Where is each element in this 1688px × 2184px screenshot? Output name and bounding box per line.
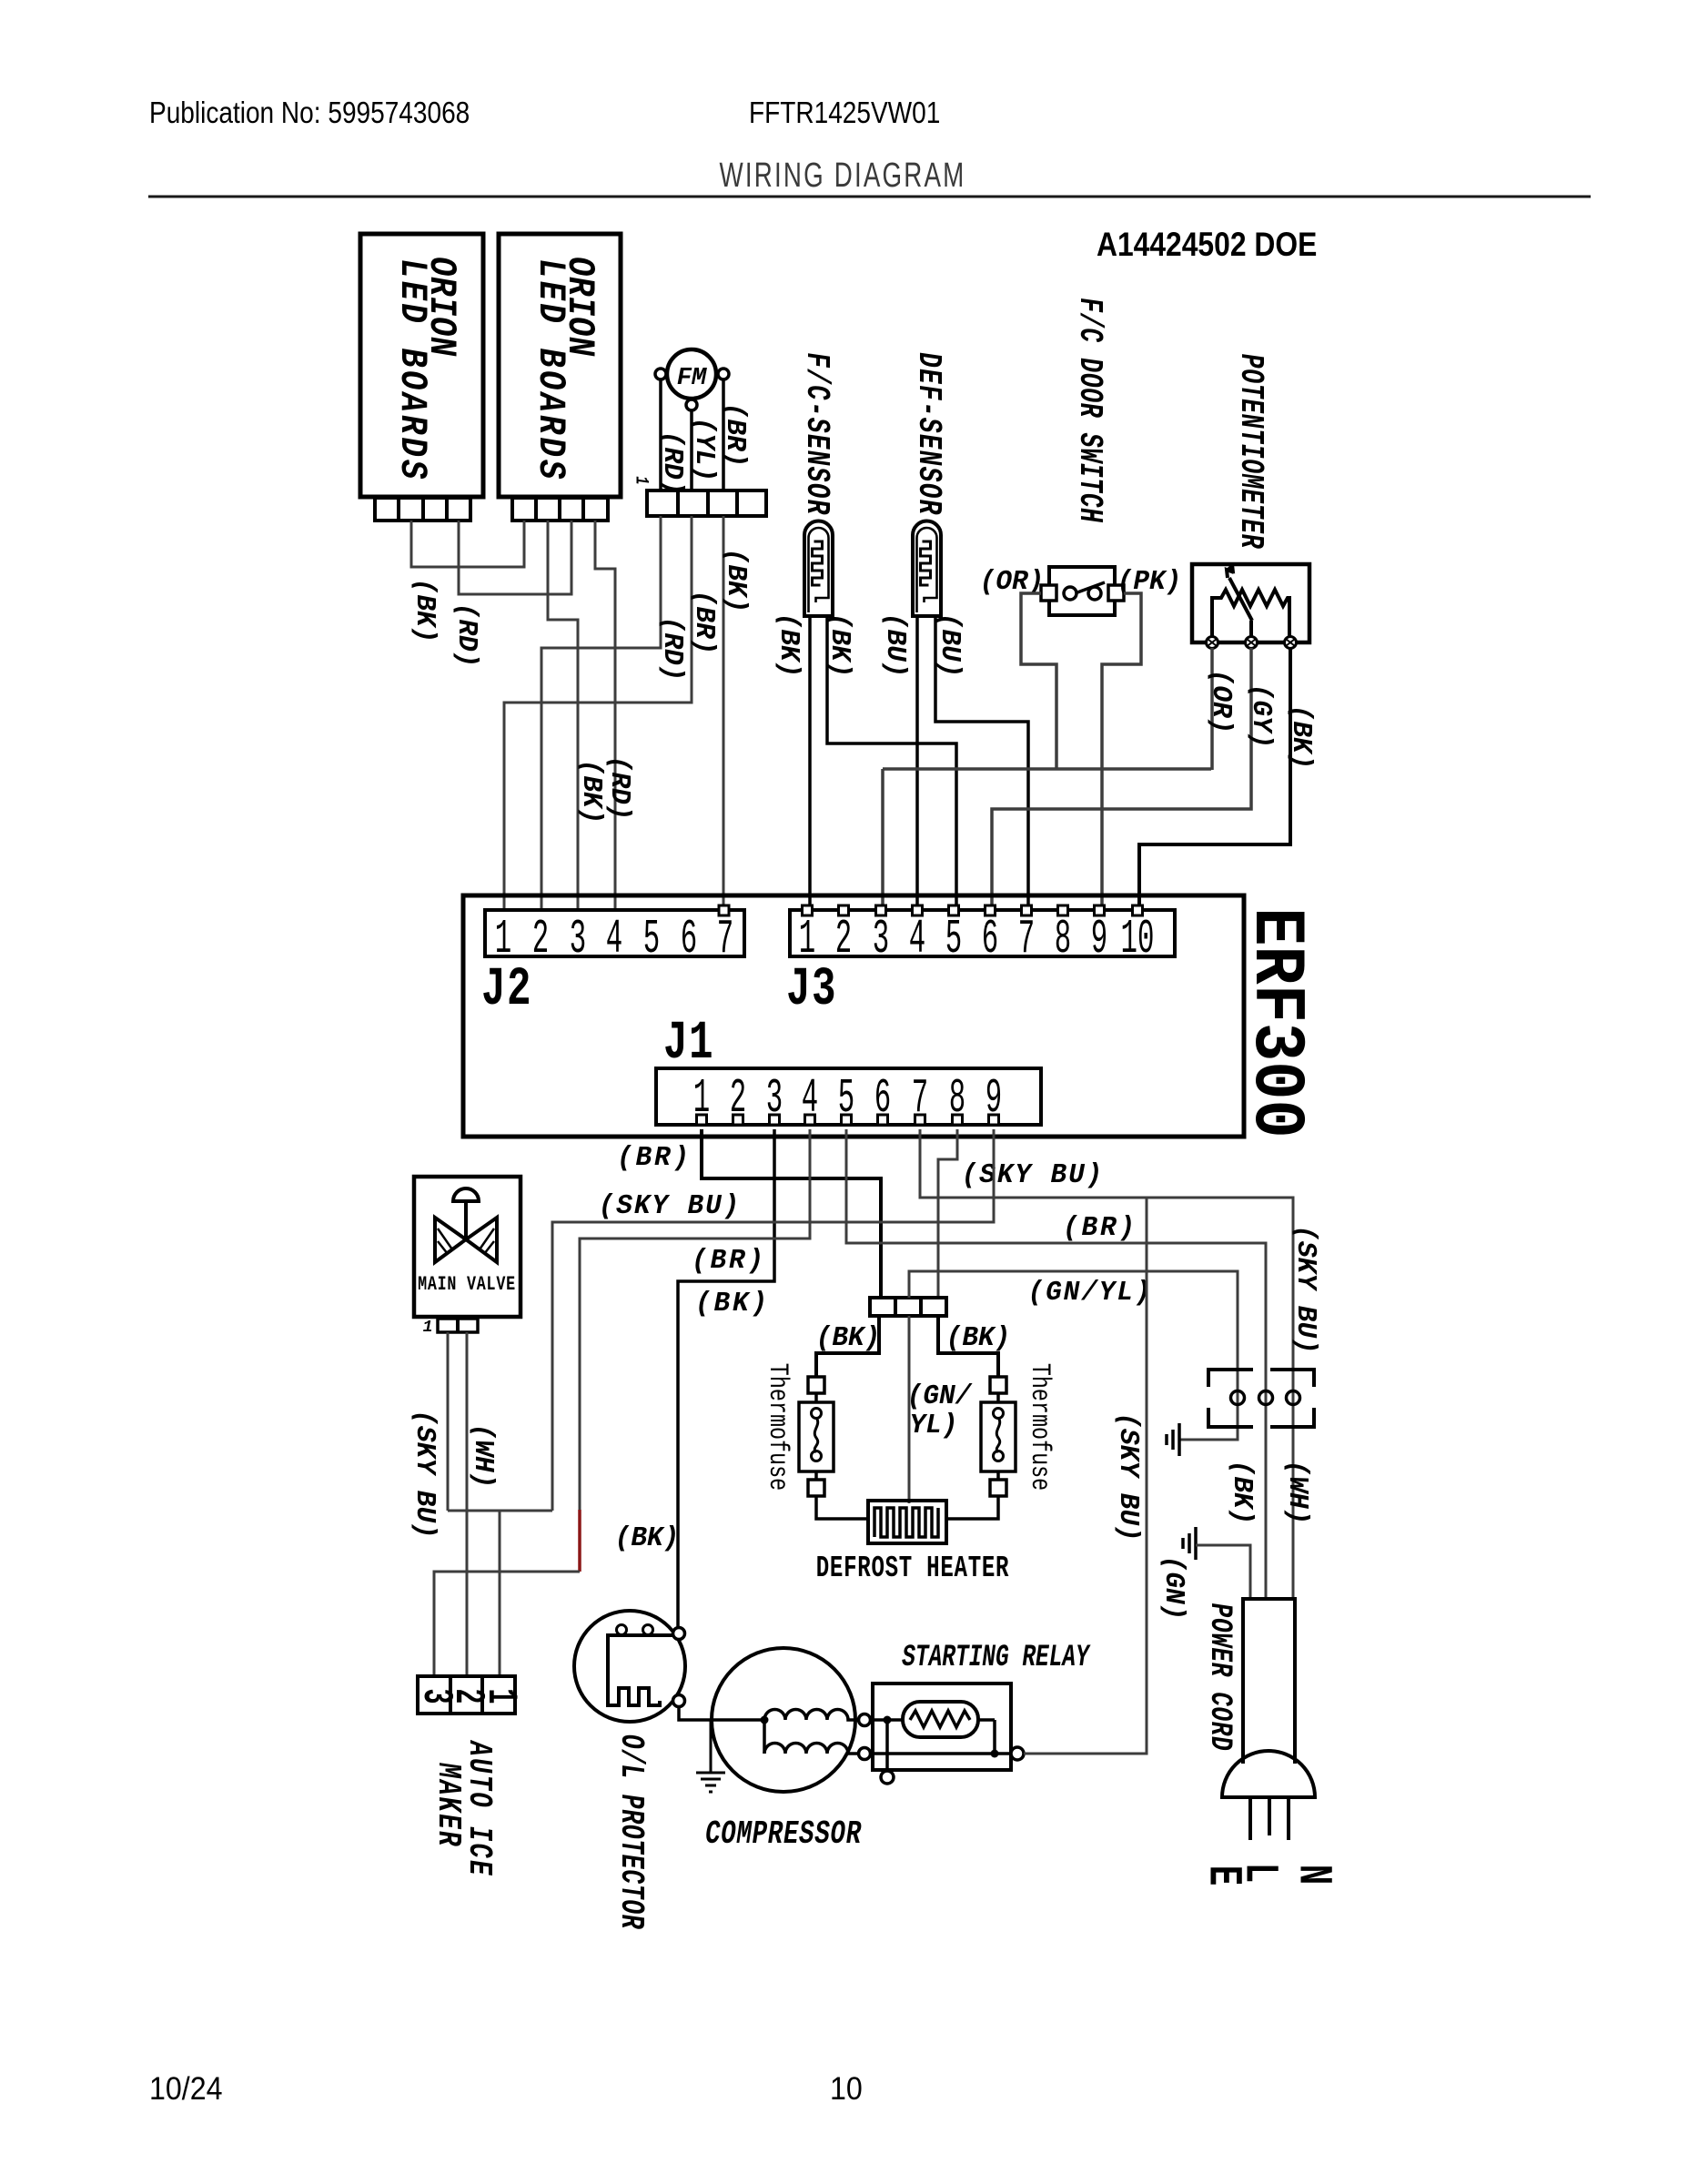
- door switch lever: [1077, 582, 1105, 592]
- board2 connector (4 pins): [512, 498, 608, 521]
- svg-text:4: 4: [606, 913, 622, 967]
- potentiometer box: [1192, 564, 1309, 642]
- svg-text:(YL): (YL): [688, 418, 720, 482]
- svg-text:1: 1: [423, 1319, 433, 1337]
- svg-text:1: 1: [477, 1688, 524, 1704]
- wire F/C right to J3-5 (BK): [827, 616, 956, 905]
- door switch box: [1049, 567, 1115, 615]
- wire J1-1 (BR) to heater connector: [702, 1129, 881, 1298]
- wire J1-4 to ice maker 3: [434, 1572, 580, 1676]
- label (GN/ YL) heater: [907, 1380, 973, 1441]
- label STARTING RELAY: [902, 1639, 1090, 1674]
- svg-text:9: 9: [1091, 913, 1107, 967]
- title: Publication No: [149, 96, 470, 130]
- svg-text:(BK): (BK): [575, 760, 607, 824]
- orion led board 1 label LED BOARDS: [390, 258, 434, 481]
- board1 connector (4 pins): [375, 498, 470, 521]
- J1 pin squares: [697, 1115, 999, 1125]
- svg-text:J3: J3: [786, 959, 837, 1020]
- compressor terminal bottom: [859, 1748, 871, 1760]
- svg-text:MAIN VALVE: MAIN VALVE: [418, 1273, 516, 1296]
- svg-text:(BU): (BU): [934, 613, 965, 678]
- label (BK) tf right: [946, 1322, 1011, 1354]
- label (BK) fc2: [824, 613, 855, 678]
- svg-text:MAKER: MAKER: [430, 1762, 468, 1847]
- FM terminal bottom: [686, 399, 697, 410]
- wire left BK to thermofuse: [816, 1316, 879, 1378]
- wire node to ice maker 1: [499, 1511, 501, 1676]
- label (SKY BU) relay riser: [1112, 1412, 1144, 1541]
- orion led board 1 box: [360, 234, 483, 497]
- label (BK) pot: [1285, 705, 1317, 770]
- svg-text:1: 1: [631, 476, 651, 484]
- FM connector (4 pins): [647, 490, 766, 516]
- label (BK) OL wire: [615, 1522, 680, 1554]
- plug prong L: [1268, 1797, 1271, 1835]
- svg-text:(OR): (OR): [1205, 670, 1237, 734]
- FM lead YL: [690, 410, 693, 490]
- wire J1-4 (BR) upper: [580, 1129, 810, 1510]
- plug prong E: [1248, 1797, 1252, 1840]
- svg-text:6: 6: [681, 913, 697, 967]
- starting relay box: [873, 1683, 1011, 1770]
- label (SKY BU) right: [1289, 1225, 1321, 1353]
- label Thermofuse right: [1024, 1363, 1054, 1491]
- DEF-SENSOR symbol: [913, 521, 941, 617]
- F/C-SENSOR symbol: [804, 521, 833, 617]
- label (OR) pot: [1205, 670, 1237, 734]
- svg-text:O/L PROTECTOR: O/L PROTECTOR: [612, 1734, 649, 1930]
- wire board1-pin4 to board2-pin3 (RD): [459, 521, 571, 594]
- J1 connector box: [656, 1068, 1041, 1125]
- svg-text:(WH): (WH): [467, 1424, 499, 1489]
- relay pill: [903, 1702, 978, 1737]
- svg-text:WIRING DIAGRAM: WIRING DIAGRAM: [720, 157, 966, 195]
- ground symbol plug: [1167, 1423, 1179, 1456]
- svg-text:(BR): (BR): [719, 403, 751, 468]
- power cord body: [1243, 1599, 1295, 1764]
- wire J1-3 (BK) to O/L protector: [678, 1129, 774, 1629]
- wire OR bus to J3-3: [883, 769, 1211, 905]
- svg-text:(BK): (BK): [1285, 705, 1317, 770]
- wire J1-9 (SKY BU) to valve node: [552, 1129, 994, 1511]
- pot terminal 3: [1285, 637, 1297, 649]
- svg-text:YL): YL): [910, 1410, 958, 1441]
- svg-text:(SKY BU): (SKY BU): [1112, 1412, 1144, 1541]
- svg-text:10: 10: [1121, 913, 1155, 967]
- O/L terminal top: [673, 1628, 685, 1640]
- wire board1-pin2 to board2-pin1 (BK): [411, 521, 524, 567]
- svg-text:POTENTIOMETER: POTENTIOMETER: [1232, 354, 1269, 550]
- label (YL) FM: [688, 418, 720, 482]
- label (WH) valve: [467, 1424, 499, 1489]
- fan motor FM label: [677, 365, 707, 392]
- wire J1-4 red segment: [578, 1510, 581, 1572]
- svg-text:J1: J1: [663, 1013, 714, 1074]
- FM lead RD: [659, 379, 662, 490]
- wire pot-1 (OR) down: [1210, 648, 1214, 770]
- wire GN to cord: [1196, 1545, 1250, 1599]
- svg-text:(BK): (BK): [695, 1288, 770, 1319]
- svg-text:6: 6: [982, 913, 998, 967]
- main valve dome: [453, 1188, 479, 1201]
- wire FM-1 to J2-2 (RD): [541, 516, 661, 910]
- ice maker pin 2: [444, 1688, 491, 1704]
- orion led board 2 label LED BOARDS: [529, 258, 572, 481]
- svg-text:8: 8: [1055, 913, 1071, 967]
- label (PK) switch: [1117, 566, 1182, 598]
- svg-text:10/24: 10/24: [149, 2072, 223, 2108]
- potentiometer wiper arrow: [1227, 564, 1252, 637]
- svg-text:(SKY BU): (SKY BU): [962, 1159, 1105, 1191]
- compressor start winding: [764, 1720, 859, 1754]
- label (BR) J1-1: [617, 1142, 692, 1174]
- svg-text:(GN/: (GN/: [907, 1380, 973, 1412]
- main valve label: [418, 1273, 516, 1296]
- svg-text:N: N: [1286, 1865, 1340, 1885]
- svg-text:(BR): (BR): [617, 1142, 692, 1174]
- svg-text:(WH): (WH): [1281, 1461, 1313, 1525]
- main valve box: [414, 1177, 521, 1317]
- label POTENTIOMETER: [1232, 354, 1269, 550]
- main valve bowtie right: [466, 1218, 497, 1262]
- label F/C-SENSOR: [798, 352, 836, 515]
- wire J1-8 to heater connector right: [938, 1129, 957, 1298]
- compressor circle: [712, 1648, 855, 1792]
- svg-text:(BK): (BK): [615, 1522, 680, 1554]
- wire thermofuse left to heater: [816, 1496, 868, 1519]
- svg-text:(BU): (BU): [879, 613, 911, 678]
- svg-text:Publication No: 5995743068: Publication No: 5995743068: [149, 96, 470, 130]
- label (GN): [1157, 1556, 1189, 1621]
- svg-text:(GY): (GY): [1245, 684, 1277, 749]
- svg-text:10: 10: [830, 2072, 863, 2108]
- label AUTO ICE: [460, 1740, 499, 1877]
- wire GN/YL up to ground path: [909, 1271, 1238, 1440]
- wire relay to SKY BU riser: [1024, 1198, 1147, 1754]
- label J2: [481, 959, 532, 1020]
- J3 connector box: [790, 910, 1175, 956]
- thermofuse right symbol: [981, 1377, 1016, 1496]
- O/L protector element: [608, 1625, 673, 1706]
- svg-text:(BK): (BK): [720, 549, 752, 613]
- label (SKY BU) J1-7: [962, 1159, 1105, 1191]
- label (RD) FM: [656, 431, 688, 496]
- wire O/L to compressor: [679, 1707, 763, 1720]
- label (BR) J1-4: [692, 1245, 766, 1277]
- wire thermofuse right to heater: [946, 1496, 998, 1519]
- ice maker pin 3: [412, 1688, 460, 1704]
- label (GN/YL): [1028, 1277, 1153, 1309]
- thermofuse left symbol: [799, 1377, 834, 1496]
- label O/L PROTECTOR: [612, 1734, 649, 1930]
- compressor terminal top: [859, 1714, 871, 1726]
- main valve bowtie left: [435, 1218, 466, 1262]
- label J1: [663, 1013, 714, 1074]
- FM terminal left: [655, 369, 666, 379]
- label POWER CORD: [1202, 1603, 1237, 1752]
- svg-text:DEFROST HEATER: DEFROST HEATER: [816, 1552, 1010, 1586]
- svg-text:STARTING RELAY: STARTING RELAY: [902, 1639, 1090, 1674]
- label (BK) fc1: [773, 613, 804, 678]
- wire FM-2 to J2-1 (BR): [504, 516, 692, 910]
- plug contact 2: [1259, 1391, 1273, 1405]
- plug contact 1: [1231, 1391, 1245, 1405]
- label (BK) J2-3 wire: [575, 760, 607, 824]
- svg-text:7: 7: [1018, 913, 1035, 967]
- svg-text:L: L: [1232, 1863, 1287, 1883]
- svg-text:(BR): (BR): [692, 1245, 766, 1277]
- wire switch right to J3-9 (PK): [1102, 593, 1141, 905]
- svg-text:(RD): (RD): [603, 756, 635, 821]
- label (BU) def1: [879, 613, 911, 678]
- FM terminal right: [718, 369, 729, 379]
- label (SKY BU) J1-9: [599, 1190, 742, 1222]
- svg-text:5: 5: [643, 913, 660, 967]
- label (BR) FM: [719, 403, 751, 468]
- footer date 10/24: [149, 2072, 223, 2108]
- label (RD) J2-4 wire: [603, 756, 635, 821]
- svg-text:F/C DOOR SWITCH: F/C DOOR SWITCH: [1071, 298, 1107, 523]
- wire valve SKY BU: [447, 1332, 450, 1511]
- label (BK) J1-3: [695, 1288, 770, 1319]
- svg-text:A14424502 DOE: A14424502 DOE: [1097, 227, 1317, 264]
- FM connector pin1 mark: [631, 476, 651, 484]
- O/L terminal bottom: [673, 1695, 685, 1707]
- svg-text:Thermofuse: Thermofuse: [762, 1363, 792, 1491]
- svg-text:(RD): (RD): [656, 617, 688, 682]
- relay output terminal: [1011, 1747, 1024, 1760]
- ground symbol GN: [1183, 1527, 1196, 1560]
- label (GY) pot: [1245, 684, 1277, 749]
- compressor ground symbol: [696, 1773, 725, 1792]
- svg-text:2: 2: [532, 913, 549, 967]
- main valve pin1 mark: [423, 1319, 433, 1337]
- door switch terminal left: [1041, 585, 1056, 601]
- svg-text:(RD): (RD): [656, 431, 688, 496]
- svg-text:(BK): (BK): [824, 613, 855, 678]
- wire DEF left to J3-4 (BU): [915, 616, 919, 905]
- svg-text:(GN/YL): (GN/YL): [1028, 1277, 1153, 1309]
- J2 pin numbers: [495, 913, 733, 967]
- svg-text:(SKY BU): (SKY BU): [409, 1410, 440, 1538]
- wire GN/YL down to heater: [908, 1316, 911, 1503]
- main valve connector: [438, 1319, 478, 1332]
- svg-text:(BR): (BR): [1063, 1212, 1137, 1244]
- plug prong N: [1287, 1797, 1290, 1840]
- label (BK) daisy wire: [409, 579, 440, 643]
- label DEF-SENSOR: [910, 352, 948, 515]
- wire J1-5 (BR) to plug middle: [846, 1129, 1266, 1599]
- label (BU) def2: [934, 613, 965, 678]
- footer page 10: [830, 2072, 863, 2108]
- label L: [1232, 1863, 1287, 1883]
- svg-text:ERF300: ERF300: [1234, 907, 1317, 1137]
- heater connector (3 pins): [870, 1298, 946, 1316]
- svg-text:J2: J2: [481, 959, 532, 1020]
- svg-text:(BK): (BK): [946, 1322, 1011, 1354]
- svg-text:Thermofuse: Thermofuse: [1024, 1363, 1054, 1491]
- svg-text:FFTR1425VW01: FFTR1425VW01: [749, 96, 940, 130]
- label (RD) daisy wire: [450, 603, 482, 668]
- label (BK) J2-7 wire: [720, 549, 752, 613]
- wire switch left to OR node: [1021, 593, 1056, 769]
- svg-text:7: 7: [717, 913, 733, 967]
- label ERF300: [1234, 907, 1317, 1137]
- wire right BK to thermofuse: [938, 1316, 998, 1378]
- label MAKER: [430, 1762, 468, 1847]
- wire valve WH to ice maker 2: [466, 1332, 469, 1676]
- orion led board 2 label ORION: [558, 257, 601, 357]
- J1 pin numbers: [693, 1072, 1002, 1127]
- svg-text:(GN): (GN): [1157, 1556, 1189, 1621]
- plug contact 3: [1287, 1391, 1300, 1405]
- relay wiring: [870, 1716, 1011, 1772]
- label N: [1286, 1865, 1340, 1885]
- title: model FFTR1425VW01: [749, 96, 940, 130]
- wire F/C left to J3-1 (BK): [808, 616, 812, 905]
- wire pot-2 (GY) to J3-6: [992, 648, 1251, 905]
- J3 pin squares: [803, 905, 1143, 915]
- svg-text:LED BOARDS: LED BOARDS: [390, 258, 434, 481]
- label (RD) J2-2 wire: [656, 617, 688, 682]
- door switch contact circles: [1064, 587, 1101, 600]
- pot terminal 1: [1207, 637, 1218, 649]
- orion led board 1 label ORION: [419, 257, 463, 357]
- FM lead BR: [722, 379, 725, 490]
- compressor run winding: [761, 1710, 860, 1724]
- wire FM-3 to J2-7 (BK): [723, 516, 725, 905]
- potentiometer resistor: [1212, 590, 1289, 637]
- plug connector box: [1208, 1370, 1314, 1427]
- svg-text:(SKY BU): (SKY BU): [599, 1190, 742, 1222]
- svg-text:F/C-SENSOR: F/C-SENSOR: [798, 352, 836, 515]
- fan motor FM circle: [667, 349, 716, 399]
- svg-text:(BK): (BK): [409, 579, 440, 643]
- svg-text:POWER CORD: POWER CORD: [1202, 1603, 1237, 1752]
- title: WIRING DIAGRAM: [720, 157, 966, 195]
- wire DEF right to J3-7 (BU): [935, 616, 1028, 905]
- defrost heater element: [874, 1508, 938, 1537]
- svg-text:LED BOARDS: LED BOARDS: [529, 258, 572, 481]
- svg-text:3: 3: [570, 913, 586, 967]
- svg-text:COMPRESSOR: COMPRESSOR: [705, 1815, 862, 1854]
- header rule line: [148, 196, 1591, 198]
- ice maker pin 1: [477, 1688, 524, 1704]
- svg-text:(BK): (BK): [816, 1322, 881, 1354]
- J3 pin numbers: [799, 913, 1155, 967]
- label (BR) J2-1 wire: [688, 591, 720, 655]
- label (BR) J1-5: [1063, 1212, 1137, 1244]
- label (BK) cord: [1226, 1461, 1258, 1525]
- O/L protector circle: [574, 1611, 685, 1722]
- compressor ground stem: [710, 1720, 713, 1773]
- svg-text:DEF-SENSOR: DEF-SENSOR: [910, 352, 948, 515]
- svg-text:(BR): (BR): [688, 591, 720, 655]
- door switch terminal right: [1108, 585, 1124, 601]
- relay resistor: [910, 1711, 970, 1727]
- label COMPRESSOR: [705, 1815, 862, 1854]
- label (SKY BU) valve: [409, 1410, 440, 1538]
- ERF300 board box: [463, 895, 1244, 1137]
- svg-text:(BK): (BK): [773, 613, 804, 678]
- label (OR) switch: [980, 566, 1045, 598]
- label J3: [786, 959, 837, 1020]
- svg-text:3: 3: [873, 913, 889, 967]
- wire pot-3 (BK) to J3-10: [1139, 648, 1290, 905]
- label F/C DOOR SWITCH: [1071, 298, 1107, 523]
- label DEFROST HEATER: [816, 1552, 1010, 1586]
- svg-text:(RD): (RD): [450, 603, 482, 668]
- svg-text:FM: FM: [677, 365, 707, 392]
- svg-text:(SKY BU): (SKY BU): [1289, 1225, 1321, 1353]
- svg-text:4: 4: [909, 913, 925, 967]
- svg-text:2: 2: [835, 913, 852, 967]
- orion led board 2 box: [499, 234, 621, 497]
- ice maker connector: [418, 1676, 515, 1714]
- label (BK) tf left: [816, 1322, 881, 1354]
- defrost heater box: [868, 1501, 946, 1543]
- label (WH) cord: [1281, 1461, 1313, 1525]
- wire valve-node bus: [448, 1510, 552, 1512]
- pot terminal 2: [1246, 637, 1258, 649]
- J2 connector box: [485, 910, 744, 956]
- wire board2-pin2 to J2-3 (BK): [548, 521, 578, 910]
- label A14424502 DOE: [1097, 227, 1317, 264]
- wire board2-pin4 to J2-4 (RD): [595, 521, 615, 910]
- svg-text:5: 5: [945, 913, 962, 967]
- plug dome: [1222, 1751, 1315, 1797]
- label E: [1196, 1865, 1250, 1886]
- relay bottom terminal: [881, 1771, 894, 1784]
- J2 pin7 square: [719, 905, 729, 915]
- label Thermofuse left: [762, 1363, 792, 1491]
- svg-text:(BK): (BK): [1226, 1461, 1258, 1525]
- main valve stem: [464, 1201, 468, 1239]
- wire J1-7 (SKY BU) to plug right: [920, 1129, 1293, 1599]
